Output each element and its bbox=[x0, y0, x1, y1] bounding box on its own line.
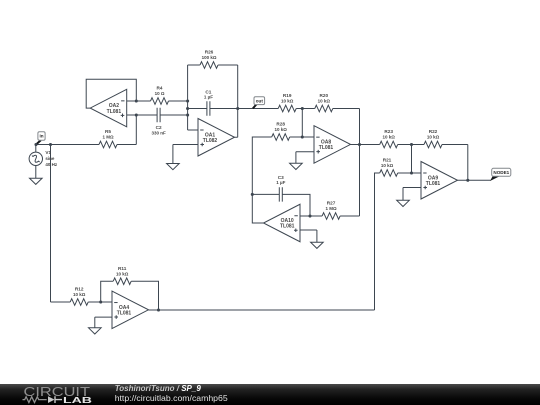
svg-text:TL081: TL081 bbox=[280, 224, 295, 230]
svg-text:40 Hz: 40 Hz bbox=[45, 162, 58, 167]
node junction bbox=[308, 214, 311, 217]
CircuitLab logo resistor symbol bbox=[23, 397, 47, 403]
ground at OA9 plus bbox=[397, 188, 410, 207]
svg-text:TL081: TL081 bbox=[117, 311, 132, 317]
node junction bbox=[99, 300, 102, 303]
svg-text:1 MΩ: 1 MΩ bbox=[102, 135, 114, 140]
wire: R23 to R22 bbox=[398, 144, 424, 146]
wire: vertical R19/R20 tap down bbox=[301, 109, 303, 138]
node junction bbox=[410, 171, 413, 174]
node junction bbox=[34, 143, 37, 146]
svg-text:10 kΩ: 10 kΩ bbox=[275, 127, 288, 132]
svg-text:10 kΩ: 10 kΩ bbox=[73, 292, 86, 297]
wire: OA8 plus to ground bbox=[296, 151, 314, 153]
svg-text:R11: R11 bbox=[118, 266, 127, 271]
ground at OA10 plus bbox=[311, 230, 324, 248]
wire: OA1 plus to ground bbox=[173, 144, 198, 146]
wire: R26 left bbox=[188, 64, 200, 66]
wire: C3 left bbox=[252, 193, 279, 195]
wire: R21 left leg from OA4 output bbox=[375, 173, 380, 310]
resistor R21 bbox=[380, 158, 398, 177]
wire: R12 to OA4 minus bbox=[88, 301, 112, 303]
svg-text:R26: R26 bbox=[205, 50, 214, 55]
wire: OA9 plus to ground bbox=[403, 187, 421, 189]
node junction bbox=[135, 99, 138, 102]
svg-text:R5: R5 bbox=[105, 129, 111, 134]
wire: OA4 output long bottom wire bbox=[149, 309, 375, 311]
resistor R23 bbox=[380, 129, 398, 148]
wire: R22 feedback vertical bbox=[467, 145, 469, 181]
svg-text:http://circuitlab.com/camhp65: http://circuitlab.com/camhp65 bbox=[115, 393, 228, 403]
svg-text:TL081: TL081 bbox=[319, 145, 334, 151]
wire: vertical R23/R21 junction bbox=[411, 145, 413, 174]
node junction bbox=[186, 99, 189, 102]
wire: up to OA2 plus line bbox=[135, 115, 137, 145]
svg-text:10 kΩ: 10 kΩ bbox=[116, 271, 129, 276]
footer bar bbox=[0, 384, 540, 405]
svg-text:in: in bbox=[39, 134, 43, 139]
resistor R20 bbox=[315, 93, 333, 112]
svg-text:R23: R23 bbox=[384, 129, 393, 134]
wire: left vertical down to R12 bbox=[50, 145, 52, 303]
wire: OA10 minus to R27 bbox=[300, 215, 322, 217]
wire: C2 to node column bbox=[160, 114, 188, 116]
wire: R5 right bbox=[117, 144, 136, 146]
node junction bbox=[251, 193, 254, 196]
resistor R28 bbox=[272, 122, 290, 141]
CircuitLab logo diode symbol bbox=[48, 396, 55, 403]
op-amp OA9 bbox=[421, 162, 458, 200]
wire: OA8 output to R23 bbox=[351, 144, 380, 146]
resistor R4 bbox=[151, 86, 169, 105]
svg-text:R27: R27 bbox=[327, 201, 336, 206]
wire: R26 right bbox=[218, 64, 238, 66]
resistor R27 bbox=[322, 201, 340, 220]
wire: C3 right leg down to OA10 minus bbox=[282, 194, 310, 216]
wire: OA9 output to NODE1 bbox=[458, 179, 491, 181]
voltage source V1 bbox=[29, 145, 58, 179]
wire: R21 to OA9 minus bbox=[398, 172, 421, 174]
ground at OA8 plus bbox=[290, 152, 303, 170]
svg-text:C2: C2 bbox=[156, 125, 162, 130]
svg-text:10 Ω: 10 Ω bbox=[155, 91, 165, 96]
wire: right vertical OA1 feedback bbox=[237, 65, 239, 137]
wire: C1 right bbox=[210, 108, 238, 110]
wire: V1 to R5 bbox=[36, 144, 99, 146]
op-amp OA4 bbox=[112, 291, 149, 329]
svg-text:100 kΩ: 100 kΩ bbox=[202, 55, 217, 60]
wire: R11 feedback right leg bbox=[131, 281, 158, 310]
wire: to OA1 minus bbox=[188, 129, 198, 131]
svg-text:1 MΩ: 1 MΩ bbox=[326, 206, 338, 211]
svg-text:1 µF: 1 µF bbox=[276, 180, 285, 185]
wire: OA2 minus to R4 bbox=[127, 100, 151, 102]
node junction bbox=[301, 135, 304, 138]
svg-text:10 kΩ: 10 kΩ bbox=[281, 99, 294, 104]
node junction bbox=[186, 107, 189, 110]
svg-text:10 kΩ: 10 kΩ bbox=[427, 135, 440, 140]
op-amp OA1 bbox=[198, 119, 235, 157]
resistor R19 bbox=[278, 93, 296, 112]
wire: to R12 bbox=[51, 301, 71, 303]
op-amp OA2 bbox=[90, 89, 127, 127]
capacitor C2 bbox=[151, 108, 166, 136]
svg-text:V1: V1 bbox=[45, 150, 51, 155]
ground at OA1 plus bbox=[167, 145, 180, 170]
svg-text:1 µF: 1 µF bbox=[204, 94, 213, 99]
wire: OA2 plus to C2 bbox=[127, 114, 157, 116]
resistor R11 bbox=[113, 266, 131, 285]
node junction bbox=[410, 143, 413, 146]
flag "out" at OA1 output bbox=[253, 97, 265, 109]
wire: OA10 plus to ground bbox=[300, 229, 317, 231]
wire: R20 right bbox=[333, 108, 360, 110]
ground below V1 bbox=[30, 178, 43, 184]
wire: left vertical of OA1 input network bbox=[187, 65, 189, 130]
node junction bbox=[358, 143, 361, 146]
wire: feedback vertical x=359.5 bbox=[359, 109, 361, 217]
svg-text:R22: R22 bbox=[429, 129, 438, 134]
svg-text:NODE1: NODE1 bbox=[493, 170, 509, 175]
wire: OA1 output bbox=[235, 136, 238, 138]
op-amp OA10 bbox=[264, 204, 301, 242]
node junction bbox=[236, 107, 239, 110]
svg-text:TL081: TL081 bbox=[107, 109, 122, 115]
ground at OA4 plus bbox=[89, 317, 102, 334]
svg-text:R4: R4 bbox=[157, 86, 163, 91]
flag "NODE1" at OA9 output bbox=[490, 168, 511, 181]
wire: OA4 plus to ground bbox=[95, 316, 112, 318]
wire: R22 right bbox=[442, 144, 468, 146]
node junction bbox=[157, 308, 160, 311]
resistor R22 bbox=[424, 129, 442, 148]
svg-text:R21: R21 bbox=[383, 158, 392, 163]
capacitor C1 bbox=[204, 89, 213, 115]
svg-text:10 kΩ: 10 kΩ bbox=[383, 135, 396, 140]
resistor R12 bbox=[70, 287, 88, 306]
resistor R5 bbox=[99, 129, 117, 148]
wire: R28 to OA8 minus bbox=[290, 136, 314, 138]
svg-text:10 kΩ: 10 kΩ bbox=[381, 163, 394, 168]
node junction bbox=[466, 179, 469, 182]
svg-text:LAB: LAB bbox=[63, 395, 92, 405]
svg-text:R20: R20 bbox=[319, 93, 328, 98]
wire: R27 right bbox=[340, 215, 359, 217]
svg-text:330 nF: 330 nF bbox=[151, 130, 166, 135]
node junction bbox=[135, 113, 138, 116]
svg-text:TL081: TL081 bbox=[426, 181, 441, 187]
resistor R26 bbox=[200, 50, 218, 69]
capacitor C3 bbox=[276, 175, 285, 201]
svg-text:ToshinoriTsuno / SP_9: ToshinoriTsuno / SP_9 bbox=[115, 384, 202, 393]
op-amp OA8 bbox=[314, 126, 351, 163]
wire: OA2 feedback loop bbox=[86, 79, 136, 108]
svg-text:sine: sine bbox=[45, 156, 55, 161]
wire: R4 to node column bbox=[169, 100, 188, 102]
wire: R11 feedback left leg bbox=[101, 281, 114, 302]
svg-text:R28: R28 bbox=[276, 122, 285, 127]
wire: R19 to R20 bbox=[296, 108, 315, 110]
wire: R28 left leg bbox=[252, 137, 271, 223]
node junction bbox=[301, 107, 304, 110]
svg-text:R19: R19 bbox=[283, 93, 292, 98]
flag "in" at input node bbox=[36, 132, 45, 145]
wire: C1 left bbox=[188, 108, 207, 110]
node junction bbox=[186, 113, 189, 116]
wire: out line to R19 bbox=[238, 108, 279, 110]
svg-text:out: out bbox=[256, 98, 264, 103]
svg-text:R12: R12 bbox=[75, 287, 84, 292]
svg-text:10 kΩ: 10 kΩ bbox=[318, 99, 331, 104]
node junction bbox=[49, 143, 52, 146]
svg-text:TL082: TL082 bbox=[203, 138, 218, 144]
